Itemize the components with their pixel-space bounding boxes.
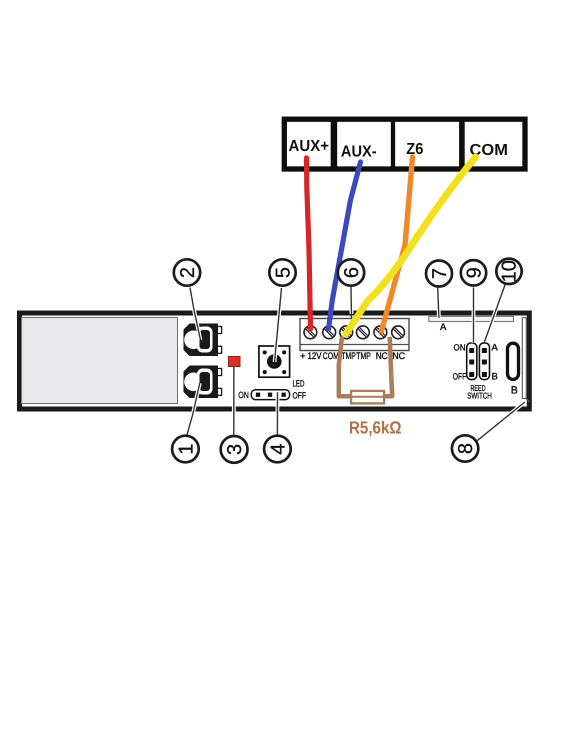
svg-text:AUX+: AUX+ <box>289 138 330 155</box>
svg-text:ON: ON <box>238 390 249 400</box>
svg-text:12V: 12V <box>308 351 323 362</box>
svg-text:1: 1 <box>175 443 197 454</box>
svg-text:+: + <box>300 351 306 362</box>
svg-text:B: B <box>492 372 498 383</box>
svg-text:A: A <box>492 343 499 354</box>
svg-text:ON: ON <box>454 343 466 353</box>
svg-text:TMP: TMP <box>341 351 356 362</box>
svg-text:5: 5 <box>273 267 295 278</box>
svg-text:3: 3 <box>224 444 246 455</box>
svg-text:NC: NC <box>376 351 388 362</box>
svg-text:TMP: TMP <box>356 351 371 362</box>
svg-text:10: 10 <box>499 260 521 282</box>
svg-text:A: A <box>440 322 447 333</box>
svg-text:2: 2 <box>177 267 199 278</box>
svg-text:COM: COM <box>323 351 339 362</box>
svg-text:6: 6 <box>341 267 363 278</box>
svg-text:9: 9 <box>464 267 486 278</box>
svg-text:8: 8 <box>455 443 477 454</box>
svg-text:LED: LED <box>293 379 305 389</box>
svg-text:7: 7 <box>429 268 451 279</box>
svg-text:OFF: OFF <box>453 372 467 382</box>
svg-text:R5,6kΩ: R5,6kΩ <box>349 418 402 438</box>
svg-text:B: B <box>511 385 518 397</box>
svg-text:4: 4 <box>267 443 289 454</box>
svg-text:OFF: OFF <box>293 391 307 401</box>
svg-text:Z6: Z6 <box>406 141 423 158</box>
svg-text:SWITCH: SWITCH <box>467 391 492 401</box>
svg-text:AUX-: AUX- <box>341 143 377 160</box>
svg-text:NC: NC <box>392 351 405 362</box>
